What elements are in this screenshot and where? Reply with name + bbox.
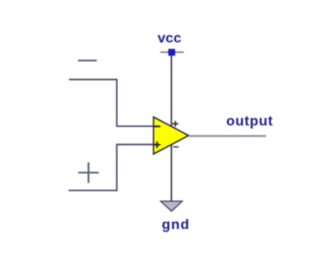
wire vcc to op-amp V+ pin bbox=[170, 55, 172, 126]
vcc node junction square bbox=[169, 49, 175, 55]
op-amp V+ supply polarity marker bbox=[172, 121, 178, 127]
svg-text:gnd: gnd bbox=[162, 216, 190, 232]
op-amp U1 triangle bbox=[154, 117, 189, 154]
wire inverting input bbox=[69, 80, 154, 127]
plus terminal symbol (bottom-left input) bbox=[78, 162, 99, 183]
minus terminal stub (top-left input) bbox=[78, 60, 97, 62]
vcc supply bar bbox=[160, 51, 183, 53]
wire output bbox=[189, 135, 266, 137]
wire op-amp V- pin to gnd bbox=[170, 144, 172, 201]
ground symbol bbox=[161, 201, 183, 211]
op-amp V- supply polarity marker bbox=[173, 146, 178, 148]
wire non-inverting input bbox=[69, 145, 154, 191]
op-amp non-inverting input marker bbox=[154, 142, 161, 149]
svg-text:output: output bbox=[226, 113, 273, 129]
svg-text:vcc: vcc bbox=[158, 30, 182, 46]
op-amp inverting input marker bbox=[154, 125, 160, 127]
